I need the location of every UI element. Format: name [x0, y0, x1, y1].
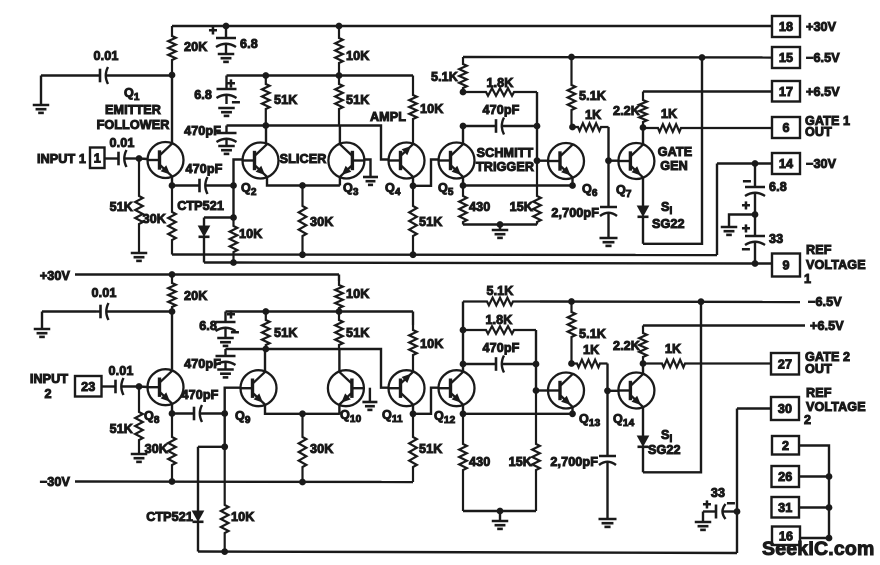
wire Q5 emitter: [462, 177, 464, 185]
svg-text:14: 14: [779, 157, 793, 171]
svg-text:6.8: 6.8: [769, 180, 787, 194]
svg-text:OUT: OUT: [805, 362, 832, 376]
svg-text:EMITTER: EMITTER: [105, 103, 161, 117]
label Q13: [579, 412, 601, 429]
wire diode branch top: [204, 216, 234, 218]
svg-text:23: 23: [81, 380, 95, 394]
junction mid rail ch2 / 51K b: [336, 309, 342, 315]
svg-text:470pF: 470pF: [182, 388, 219, 402]
diode Si SG22 (ch1): [638, 178, 649, 244]
wire 430/15K common: [463, 223, 537, 225]
junction clamp bottom ch2: [222, 549, 228, 555]
resistor 5.1K (schmitt ch1): [431, 57, 467, 92]
transistor Q4: [389, 143, 425, 179]
svg-text:0.01: 0.01: [110, 136, 135, 150]
svg-text:Q12: Q12: [434, 409, 456, 426]
label -30V (ch2): [40, 475, 71, 489]
wire REF2 down: [736, 409, 738, 554]
label 2 (ch2): [44, 387, 51, 401]
svg-text:15: 15: [779, 51, 793, 65]
resistor 51K (input 2 bias): [110, 387, 143, 455]
wire schmitt emitter rail ch2: [463, 413, 573, 415]
wire Q13 base: [536, 389, 547, 391]
svg-text:5.1K: 5.1K: [486, 284, 513, 298]
svg-text:GEN: GEN: [660, 159, 688, 173]
capacitor 33 (right filter): [742, 215, 783, 264]
label INPUT 1: [37, 152, 86, 166]
svg-text:1.8K: 1.8K: [486, 76, 513, 90]
junction mid rail / 51K a: [263, 73, 269, 79]
wire REF VOLTAGE 2 line: [198, 552, 737, 554]
label +6.5V (ch2): [810, 319, 844, 333]
svg-text:+30V: +30V: [806, 20, 837, 34]
label CTP521 (ch2): [146, 510, 193, 524]
svg-text:+6.5V: +6.5V: [806, 85, 840, 99]
transistor Q6: [548, 143, 584, 179]
svg-text:1K: 1K: [583, 343, 599, 357]
junction bus 26: [826, 474, 832, 480]
label Q12: [434, 409, 456, 426]
svg-text:SG22: SG22: [652, 217, 685, 231]
svg-text:10K: 10K: [346, 49, 369, 63]
svg-text:−6.5V: −6.5V: [808, 295, 842, 309]
svg-text:33: 33: [711, 486, 725, 500]
wire pin 26 link: [799, 475, 829, 477]
junction Q14 base node: [605, 388, 611, 394]
junction Q12 emitter / 430: [460, 411, 466, 417]
transistor Q2: [243, 143, 279, 179]
wire schmitt emitter rail ch1: [463, 184, 573, 186]
wire -30V rail ch2: [75, 480, 413, 483]
junction -6.5V ch2 / Q14 return: [698, 299, 704, 305]
wire -30V down: [716, 164, 718, 256]
label Q1: [124, 86, 140, 103]
junction rail3 / 51K a / Q2 collector: [263, 123, 269, 129]
junction Q13 base node: [533, 388, 539, 394]
wire Q13 emitter: [571, 407, 573, 414]
capacitor 2700pF (ch1): [551, 161, 617, 238]
svg-text:−: −: [742, 241, 750, 257]
junction -30V / 51K Q4: [410, 252, 416, 258]
wire 470pF right to Q6 base: [536, 126, 538, 161]
svg-text:FOLLOWER: FOLLOWER: [97, 118, 170, 132]
ground input ch2: [34, 312, 51, 337]
resistor 30K (slicer 2): [299, 414, 334, 482]
label SG22 (ch1): [652, 217, 685, 231]
svg-text:10K: 10K: [239, 227, 262, 241]
junction bus 16: [826, 535, 832, 541]
wire diode branch ch2: [198, 446, 225, 448]
resistor 20K (ch2): [168, 275, 207, 312]
svg-text:VOLTAGE: VOLTAGE: [806, 400, 866, 414]
svg-text:33: 33: [769, 232, 783, 246]
capacitor 0.01 (input 1): [105, 136, 140, 167]
svg-text:−6.5V: −6.5V: [806, 51, 840, 65]
junction 33 cap / REF2: [734, 509, 740, 515]
svg-text:51K: 51K: [110, 200, 133, 214]
resistor 51K (ch1 b): [335, 76, 369, 126]
wire Q3 emitter: [339, 177, 341, 185]
svg-text:−30V: −30V: [806, 157, 837, 171]
capacitor 6.8 electrolytic (second): [194, 75, 240, 110]
wire 1.8K to 470pF right ch2: [535, 330, 537, 364]
label GATE: [658, 145, 692, 159]
junction Q7 base node: [606, 158, 612, 164]
capacitor 470pF (schmitt ch1): [463, 103, 537, 135]
svg-text:10K: 10K: [420, 102, 443, 116]
pin box 1: [90, 148, 105, 169]
svg-text:Q7: Q7: [616, 183, 632, 200]
wire clamp bottom to REF line: [204, 261, 234, 263]
svg-text:Si: Si: [661, 200, 673, 217]
wire Q7 emitter return loop: [643, 58, 702, 244]
svg-text:6.8: 6.8: [240, 37, 258, 51]
svg-text:Q3: Q3: [343, 181, 359, 198]
svg-text:30K: 30K: [145, 442, 168, 456]
svg-text:470pF: 470pF: [184, 357, 221, 371]
ground below 51K input1: [131, 253, 148, 261]
junction -30V / 6.8 filter: [752, 161, 758, 167]
svg-text:+6.5V: +6.5V: [810, 319, 844, 333]
junction slicer2 emitter / 30K: [300, 411, 306, 417]
resistor 51K (Q11 emitter): [409, 414, 442, 482]
wire Q3 base to ground: [364, 160, 370, 178]
svg-text:Q13: Q13: [579, 412, 601, 429]
wire 5.1K down to 1.8K: [462, 302, 464, 331]
pin box 18 +30V: [772, 16, 837, 37]
capacitor 470pF (Q8 to Q9): [172, 388, 225, 422]
svg-text:30K: 30K: [310, 442, 333, 456]
svg-text:51K: 51K: [274, 326, 297, 340]
svg-text:−: −: [727, 495, 735, 511]
transistor Q7: [618, 143, 654, 179]
junction 5.1K/1.8K node: [460, 89, 466, 95]
svg-text:OUT: OUT: [805, 125, 832, 139]
pin box 26: [772, 466, 800, 487]
pin box 23: [75, 376, 102, 397]
transistor Q9: [241, 370, 277, 406]
junction 20K / 0.01 ch2: [169, 309, 175, 315]
resistor 1K (gate1 out): [643, 107, 772, 132]
junction mid rail ch2 / 51K a: [263, 309, 269, 315]
wire +6.5V line ch2: [643, 324, 805, 326]
capacitor 470pF (ch1 left): [184, 124, 236, 146]
svg-text:31: 31: [778, 501, 792, 515]
svg-text:51K: 51K: [274, 93, 297, 107]
svg-text:Q4: Q4: [385, 181, 401, 198]
svg-text:−: −: [743, 173, 751, 189]
wire Q1 emitter: [171, 177, 173, 186]
resistor 51K (ch2 b): [335, 312, 369, 350]
junction 1.8K left: [460, 327, 466, 333]
svg-text:0.01: 0.01: [92, 286, 117, 300]
svg-text:+30V: +30V: [40, 269, 71, 283]
svg-text:Q10: Q10: [340, 408, 362, 425]
transistor Q1: [148, 142, 184, 178]
capacitor 0.01 (top left): [94, 49, 172, 84]
svg-text:2,700pF: 2,700pF: [550, 455, 598, 469]
svg-text:10K: 10K: [231, 510, 254, 524]
wire +6.5V line ch1: [643, 90, 772, 92]
label EMITTER: [105, 103, 161, 117]
junction -6.5V / Q7 return: [699, 55, 705, 61]
junction +30V / 20K ch2: [169, 272, 175, 278]
wire 1K to Q7 base: [607, 127, 609, 161]
pin box 31: [772, 497, 800, 518]
wire pin 31 link: [799, 506, 829, 508]
svg-text:1K: 1K: [661, 107, 677, 121]
svg-text:Q1: Q1: [124, 86, 140, 103]
label INPUT (ch2): [30, 372, 68, 386]
resistor 430 (ch2): [459, 414, 490, 511]
svg-text:17: 17: [779, 85, 793, 99]
resistor 5.1K (Q6 load): [568, 57, 606, 127]
wire -30V pin to rail: [717, 162, 772, 164]
wire pin bus: [799, 446, 829, 539]
label Q2: [241, 181, 257, 198]
resistor 30K (Q8 emitter): [145, 414, 176, 482]
junction top rail / 6.8 cap: [223, 23, 229, 29]
junction slicer emitter / 30K: [300, 183, 306, 189]
svg-text:470pF: 470pF: [186, 162, 223, 176]
svg-text:15K: 15K: [510, 200, 533, 214]
svg-text:GATE: GATE: [658, 145, 692, 159]
label AMPL: [370, 110, 406, 124]
label Q9: [235, 409, 251, 426]
transistor Q14: [618, 373, 654, 409]
wire Q12 emitter: [462, 405, 464, 414]
svg-text:470pF: 470pF: [483, 341, 520, 355]
svg-text:INPUT: INPUT: [30, 372, 68, 386]
pin box 16: [772, 527, 800, 546]
svg-text:470pF: 470pF: [184, 124, 221, 138]
resistor 1K (Q13-Q14): [572, 343, 608, 367]
svg-text:SeekIC.com: SeekIC.com: [762, 538, 875, 560]
wire 1K to Q14 base: [606, 364, 608, 391]
label FOLLOWER: [97, 118, 170, 132]
resistor 10K (AMPL load): [409, 76, 443, 144]
svg-text:VOLTAGE: VOLTAGE: [806, 258, 866, 272]
svg-text:15K: 15K: [509, 455, 532, 469]
ground schmitt ch1: [492, 225, 509, 238]
svg-text:TRIGGER: TRIGGER: [476, 160, 534, 174]
resistor 1K (gate2 out): [643, 342, 771, 367]
junction 470pF left / Q12 collector: [460, 361, 466, 367]
svg-text:+: +: [742, 197, 750, 213]
wire Q10 base to ground: [369, 388, 371, 402]
svg-text:REF: REF: [806, 243, 832, 257]
svg-text:+: +: [227, 306, 235, 322]
pin box 2: [772, 436, 799, 455]
resistor 51K (ch1 a): [262, 76, 297, 126]
wire Q10 collector: [338, 349, 340, 371]
wire Q2 collector: [265, 126, 267, 144]
transistor Q5: [439, 143, 475, 179]
junction Q8 emitter node: [169, 411, 175, 417]
label SLICER: [280, 152, 327, 166]
resistor 2.2K (ch1): [613, 92, 647, 128]
junction Q5 emitter / 430: [460, 183, 466, 189]
svg-text:Q8: Q8: [144, 409, 160, 426]
svg-text:Q2: Q2: [241, 181, 257, 198]
svg-text:INPUT 1: INPUT 1: [37, 152, 86, 166]
svg-text:2.2K: 2.2K: [613, 339, 640, 353]
junction 470pF / Q2 base column: [231, 183, 237, 189]
junction Q13 emitter: [570, 411, 576, 417]
svg-text:10K: 10K: [420, 337, 443, 351]
svg-text:+: +: [703, 496, 711, 512]
resistor 15K (ch1): [510, 161, 541, 225]
junction Q13 collector node: [569, 361, 575, 367]
wire REF VOLTAGE 1 line: [234, 263, 756, 264]
ground below 51K input2: [131, 454, 148, 462]
capacitor 6.8 electrolytic (ch2): [199, 306, 239, 340]
label CTP521 (ch1): [177, 199, 224, 213]
svg-text:2: 2: [782, 439, 789, 453]
label Q14: [613, 412, 635, 429]
transistor Q3: [328, 143, 364, 179]
resistor 10K (ch1 clamp): [230, 218, 263, 263]
svg-text:51K: 51K: [419, 442, 442, 456]
resistor 1.8K (ch1): [463, 76, 537, 96]
wire -6.5V rail ch2: [540, 300, 800, 303]
junction 470pF right: [534, 123, 540, 129]
resistor 430 (ch1): [459, 186, 490, 225]
svg-text:Q14: Q14: [613, 412, 635, 429]
wire Q11 emitter to Q12 base: [413, 388, 439, 414]
ground below 6.8 ch2: [217, 338, 234, 346]
svg-text:5.1K: 5.1K: [579, 327, 606, 341]
ground schmitt ch2: [492, 511, 509, 529]
wire Q8 collector: [171, 312, 173, 370]
wire Q6 emitter: [571, 178, 573, 186]
svg-text:Q9: Q9: [235, 409, 251, 426]
svg-text:Q5: Q5: [438, 181, 454, 198]
transistor Q13: [548, 373, 584, 409]
junction -6.5V ch2 / 5.1K b: [569, 299, 575, 305]
junction input1 node: [136, 156, 142, 162]
svg-text:+: +: [742, 220, 750, 236]
resistor 30K (slicer): [299, 186, 334, 255]
junction -30V / 30K slicer: [300, 252, 306, 258]
resistor 10K (ch2 divider): [335, 275, 369, 312]
junction Q7 collector node: [640, 125, 646, 131]
wire Q2 base column: [234, 160, 243, 218]
junction clamp bottom: [231, 260, 237, 266]
resistor 1.8K (ch2): [463, 313, 536, 334]
svg-text:0.01: 0.01: [109, 364, 134, 378]
junction schmitt ground node: [497, 222, 503, 228]
ground Q3 base: [363, 177, 378, 185]
capacitor 470pF (ch2 left): [184, 349, 235, 371]
pin box 15 -6.5V: [772, 47, 840, 68]
wire Q1 collector: [171, 75, 173, 143]
svg-text:6.8: 6.8: [194, 88, 212, 102]
label Q7: [616, 183, 632, 200]
wire +30V rail ch2: [75, 273, 339, 275]
wire Q3 collector: [339, 126, 341, 144]
label SCHMITT: [477, 146, 534, 160]
junction bus 31: [826, 505, 832, 511]
svg-text:26: 26: [778, 470, 792, 484]
pin box 17 +6.5V: [772, 81, 840, 102]
junction rail3 ch2 / 51K a: [263, 346, 269, 352]
svg-text:2.2K: 2.2K: [613, 104, 640, 118]
wire Q10 emitter: [338, 405, 340, 414]
svg-text:430: 430: [469, 200, 490, 214]
label Si (ch1): [661, 200, 673, 217]
junction Q6 base node: [534, 158, 540, 164]
svg-text:30K: 30K: [310, 215, 333, 229]
pin box 9 REF VOLTAGE 1: [755, 243, 866, 286]
ground below 470pF (ch1 left): [218, 146, 235, 154]
svg-text:1: 1: [804, 272, 811, 286]
wire filter mid to ground: [729, 215, 755, 228]
resistor 30K (Q1 emitter): [143, 186, 176, 255]
label watermark SeekIC.com: [762, 538, 875, 560]
label TRIGGER: [476, 160, 534, 174]
resistor 5.1K (ch2 horizontal): [463, 284, 540, 305]
wire 1.8K to 470pF right: [536, 92, 538, 126]
svg-text:30: 30: [778, 402, 792, 416]
svg-text:51K: 51K: [346, 326, 369, 340]
resistor 51K (ch2 a): [262, 312, 297, 350]
capacitor 470pF (Q1 to Q2): [172, 162, 234, 194]
svg-text:−30V: −30V: [40, 475, 71, 489]
junction 470pF / Q9 base column: [222, 411, 228, 417]
junction Q4 emitter / 51K: [410, 183, 416, 189]
svg-text:1.8K: 1.8K: [485, 313, 512, 327]
svg-text:+: +: [209, 22, 217, 38]
svg-text:30K: 30K: [143, 212, 166, 226]
resistor 51K (Q4 emitter): [409, 186, 442, 255]
svg-text:430: 430: [469, 455, 490, 469]
label SG22 (ch2): [648, 443, 681, 457]
svg-text:20K: 20K: [184, 40, 207, 54]
wire 470pF right to Q13 base: [535, 364, 537, 391]
resistor 51K (input 1 bias): [110, 159, 143, 254]
junction Q14 collector node: [640, 361, 646, 367]
svg-text:6: 6: [782, 121, 789, 135]
svg-text:2,700pF: 2,700pF: [551, 206, 599, 220]
resistor 15K (ch2): [509, 391, 540, 512]
svg-text:51K: 51K: [110, 422, 133, 436]
junction filter mid node: [752, 212, 758, 218]
wire Q14 base: [608, 390, 619, 392]
svg-text:10K: 10K: [346, 287, 369, 301]
wire +30V top rail (channel 1): [172, 25, 772, 27]
resistor 2.2K (ch2): [613, 326, 647, 364]
wire mid rail ch2: [226, 310, 414, 312]
ground top-left input: [33, 76, 50, 113]
capacitor 33 (ch2): [703, 486, 737, 522]
wire Q5 collector: [462, 126, 464, 144]
svg-text:5.1K: 5.1K: [579, 89, 606, 103]
svg-text:20K: 20K: [184, 289, 207, 303]
resistor 1K (Q6-Q7): [573, 108, 609, 131]
wire rail3 ch2 to Q11 base: [226, 349, 389, 388]
svg-text:1K: 1K: [665, 342, 681, 356]
label Q4: [385, 181, 401, 198]
wire mid rail ch1: [227, 74, 414, 76]
junction schmitt2 ground node: [497, 508, 503, 514]
wire Q9 base column: [225, 388, 241, 447]
ground below 470pF ch2: [217, 370, 234, 378]
junction mid rail / 51K b: [336, 73, 342, 79]
svg-text:1K: 1K: [585, 108, 601, 122]
resistor 5.1K (Q13 load): [568, 302, 606, 364]
capacitor 2700pF (ch2): [550, 391, 616, 519]
